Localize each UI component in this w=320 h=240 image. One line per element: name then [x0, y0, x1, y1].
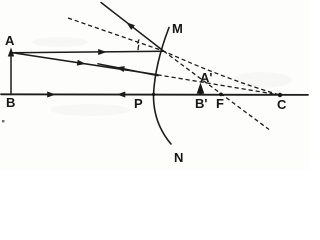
wire arrow axis ray left [117, 92, 126, 98]
image arrow A'B' [197, 83, 205, 95]
reflected ray E back [98, 64, 158, 76]
reflected ray extension through F dashed [164, 51, 270, 130]
normal at D through C dashed [68, 18, 280, 95]
angle mark r [138, 39, 140, 43]
node C centre dot [278, 93, 282, 97]
scan noise [32, 37, 88, 47]
svg-text:A: A [5, 33, 15, 48]
angle mark i [137, 45, 140, 50]
svg-text:P: P [134, 96, 143, 111]
svg-text:M: M [172, 21, 183, 36]
node P pole dot [152, 93, 155, 96]
wire arrow axis ray right [47, 92, 56, 98]
svg-text:C: C [277, 97, 287, 112]
ray A to E toward C [11, 53, 158, 75]
object AB [10, 51, 12, 95]
svg-text:B': B' [195, 96, 207, 111]
svg-text:F: F [216, 96, 224, 111]
reflected ray D upward [101, 3, 164, 52]
ray A to D parallel to axis [11, 51, 164, 53]
convex mirror MN [153, 28, 171, 145]
svg-text:B: B [6, 95, 15, 110]
node F focus dot [219, 93, 223, 97]
principal axis [1, 93, 308, 96]
extension E to C dashed [158, 75, 281, 95]
svg-text:N: N [174, 150, 183, 165]
svg-text:A': A' [200, 70, 212, 85]
scan speck [2, 120, 4, 122]
